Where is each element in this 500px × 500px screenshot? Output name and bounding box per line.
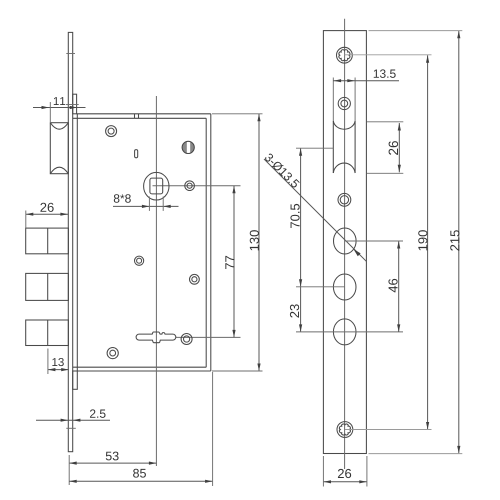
- lock case top edge ticks: [134, 114, 136, 119]
- dimension 23 text: [290, 304, 299, 317]
- deadbolt 1: [26, 228, 69, 254]
- top mounting tab: [73, 94, 77, 114]
- dimension 46 text: [388, 279, 397, 293]
- dimension 77 arrows: [232, 186, 235, 194]
- dimension 13 text: [52, 358, 63, 366]
- dimension 215 line: [458, 31, 460, 454]
- keyhole horizontal centerline: [176, 336, 241, 338]
- dimension 13.5 arrows: [334, 79, 342, 82]
- dimension 70.5 extension line: [296, 147, 333, 149]
- faceplate break tick top: [66, 53, 75, 55]
- dimension 13 arrows: [48, 368, 56, 371]
- slot side extension lines (13.5): [332, 78, 334, 122]
- dimension 13.5 text: [374, 69, 396, 78]
- dimension 190 text: [418, 230, 427, 250]
- rivet hole D: [190, 274, 200, 284]
- dimension 26 (spool) line: [398, 123, 400, 172]
- keyhole: [136, 332, 176, 343]
- dimension 46 extension line: [345, 240, 403, 242]
- dimension 46 arrows: [397, 241, 400, 249]
- dimension 2.5 line: [36, 419, 110, 421]
- dimension 53/85 extension line left: [68, 455, 70, 485]
- dimension 8*8 line: [113, 205, 179, 207]
- dimension 190 arrows: [426, 55, 429, 63]
- dimension 8*8 extension lines: [148, 197, 150, 211]
- dimension 23 arrows: [299, 324, 302, 332]
- dimension 13.5 line: [333, 80, 399, 82]
- dimension 26 (plate width) text: [338, 469, 351, 478]
- rivet hole B: [185, 181, 195, 191]
- dimension 53 line: [69, 462, 156, 464]
- torx screw bottom: [337, 422, 353, 438]
- dimension 26 (spool) text: [389, 141, 399, 155]
- dimension 23 extension lines: [296, 286, 345, 288]
- lock case bottom outer edge: [73, 370, 211, 372]
- dimension 85 line: [69, 480, 212, 482]
- dimension 2.5 arrows: [61, 419, 69, 422]
- label 3-d13.5: [265, 154, 300, 188]
- dimension 11 line: [33, 107, 86, 109]
- deadbolt 2: [26, 273, 69, 300]
- dimension 11 arrows: [42, 106, 50, 109]
- latch opening (spool cutout): [333, 121, 355, 173]
- dimension 70.5 line: [300, 148, 302, 287]
- lock case top inner edge: [73, 117, 207, 119]
- dimension 46 line: [398, 241, 400, 332]
- leader line 3-d13.5: [264, 159, 366, 261]
- dimension 190 line: [427, 55, 429, 429]
- dimension 11 text: [54, 97, 65, 105]
- dimension 77 line: [233, 186, 235, 338]
- dimension 26 (plate width) extension lines: [322, 456, 324, 487]
- dimension 85 extension line right: [212, 372, 214, 486]
- tab tick line: [66, 104, 79, 106]
- dimension 215 extension lines: [369, 30, 463, 32]
- lock case bottom inner edge: [73, 366, 207, 368]
- dimension 26 (plate width) line: [323, 481, 367, 483]
- dimension 215 text: [450, 230, 459, 250]
- screw hole upper: [338, 97, 350, 109]
- dimension 70.5 arrows: [299, 148, 302, 156]
- dimension 13 extension line: [47, 349, 49, 375]
- faceplate break tick bottom: [66, 427, 76, 429]
- slotted screw head: [182, 141, 194, 153]
- small slot capsule: [135, 150, 138, 158]
- dimension 130 extension lines: [212, 113, 263, 115]
- dimension 77 text: [225, 256, 234, 269]
- strike faceplate outline (front view): [323, 31, 366, 454]
- spindle horizontal centerline: [153, 185, 241, 187]
- bottom mounting tab: [73, 371, 78, 389]
- rivet hole E (near keyhole): [181, 334, 192, 345]
- dimension 26 (spool) extension lines: [367, 121, 404, 123]
- dimension 26 (bolt throw) text: [40, 203, 53, 212]
- dimension 11 extension line: [49, 102, 51, 122]
- dimension 8*8 arrows: [142, 205, 150, 208]
- dimension 8*8 text: [114, 194, 131, 203]
- torx screw top: [337, 47, 353, 63]
- dimension 2.5 text: [90, 409, 106, 418]
- dimension 26 (spool) arrows: [398, 123, 401, 131]
- dimension 23 line: [300, 287, 302, 332]
- vertical centerline: [155, 96, 157, 466]
- lock case right inner edge: [205, 118, 207, 367]
- square spindle hole 8x8: [150, 178, 163, 194]
- dimension 26 line: [26, 213, 68, 215]
- bolt hole 1: [334, 228, 357, 254]
- lock case top outer edge: [77, 113, 211, 115]
- dimension 26 arrows: [26, 213, 34, 216]
- latch bolt: [50, 123, 68, 174]
- deadbolt 3: [26, 320, 69, 346]
- lock case left edge: [76, 114, 78, 371]
- dimension 215 arrows: [457, 31, 460, 39]
- dimension 130 arrows: [257, 114, 260, 122]
- dimension 85 arrows: [69, 480, 77, 483]
- dimension 190 extension lines: [345, 54, 432, 56]
- dimension 53 arrows: [69, 462, 77, 465]
- rivet hole A: [106, 126, 117, 137]
- spindle hub circle: [144, 172, 169, 200]
- bolt hole 3: [333, 319, 356, 345]
- dimension 53 text: [106, 452, 119, 461]
- dimension 70.5 text: [290, 204, 299, 228]
- dimension 130 text: [250, 230, 259, 250]
- dimension 85 text: [133, 469, 146, 478]
- bolt hole 2: [333, 274, 356, 300]
- dimension 130 line: [258, 114, 260, 371]
- dimension 26 (plate width) arrows: [324, 480, 332, 483]
- rivet hole C: [135, 256, 144, 265]
- faceplate strip (lock body side view): [68, 32, 72, 451]
- dimension 13 line: [48, 369, 69, 371]
- dimension 26 extension line: [25, 211, 27, 228]
- lock case right outer edge: [210, 114, 212, 371]
- leader arrowhead: [353, 249, 360, 256]
- rivet hole F (bottom left): [107, 348, 118, 359]
- faceplate vertical centerline: [344, 19, 346, 469]
- screw hole middle: [338, 193, 351, 206]
